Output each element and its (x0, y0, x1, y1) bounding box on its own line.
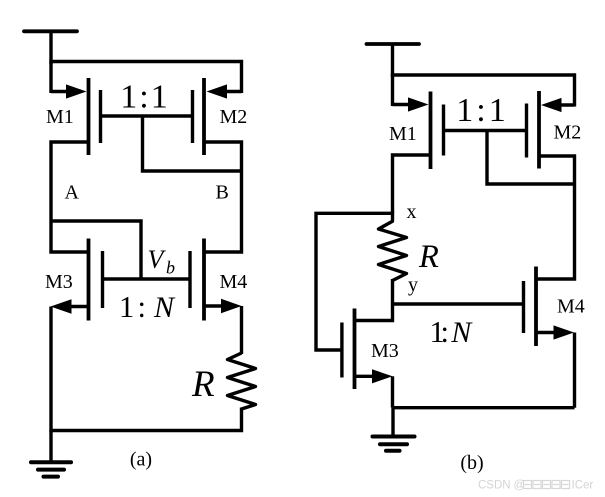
wire M4 source (a) (204, 304, 224, 307)
wire node y to M3 drain (b) (355, 304, 393, 321)
wire M4 source down to ground rail (b) (573, 333, 576, 408)
wire node A to lower gates (a) (51, 221, 141, 279)
wire M3 source (a) (68, 305, 89, 308)
svg-text:M1: M1 (389, 123, 417, 145)
wire gate M1-M2 (a) (101, 114, 193, 117)
resistor R (a) (228, 353, 256, 409)
svg-text:M1: M1 (46, 106, 74, 128)
wire VDD top rail (b) (393, 75, 575, 107)
wire node y to M4 gate (b) (393, 302, 524, 305)
wire VDD top rail (a) (51, 62, 242, 94)
svg-text:M4: M4 (557, 296, 585, 318)
wire M1 source (b) (393, 103, 413, 106)
svg-text::: : (441, 315, 449, 349)
svg-text:CSDN: CSDN (478, 480, 511, 492)
wire M3 source down to ground rail (a) (49, 307, 52, 433)
svg-text:R: R (418, 239, 439, 275)
svg-text:1:1: 1:1 (120, 79, 169, 116)
wire M3 source down to ground (b) (391, 376, 394, 407)
label Vb (a) (148, 245, 176, 278)
watermark CSDN (478, 480, 593, 492)
transistor M4 (b) (524, 267, 537, 347)
wire M2 source (a) (223, 90, 242, 93)
transistor M1 (b) (431, 92, 444, 170)
svg-text:x: x (407, 201, 417, 223)
arrow M4 source (a) (221, 299, 242, 314)
svg-text:y: y (408, 274, 418, 296)
svg-text:(a): (a) (130, 449, 152, 471)
label ratio 1:N (b) (430, 315, 474, 349)
wire M4 source to resistor (a) (240, 306, 243, 354)
svg-text:M3: M3 (371, 340, 399, 362)
VDD supply symbol (a) (24, 31, 77, 64)
svg-text:R: R (191, 364, 215, 405)
svg-text::: : (138, 290, 146, 324)
svg-text:1:1: 1:1 (456, 92, 508, 129)
wire gate M3-M4 (a) (103, 277, 191, 280)
svg-text:N: N (153, 291, 176, 324)
svg-text:(b): (b) (460, 452, 483, 474)
transistor M3 (a) (89, 239, 103, 321)
transistor M4 (a) (190, 239, 204, 321)
arrow M1 source (a) (66, 84, 87, 98)
wire node A: M1 drain to M3 drain (a) (51, 142, 89, 252)
ground (b) (373, 408, 415, 451)
wire ground rail (b) (393, 406, 575, 409)
wire M3 source (b) (355, 375, 375, 378)
VDD supply symbol (b) (367, 44, 420, 77)
wire M2 drain down to M4 drain (b) (536, 156, 575, 279)
svg-text:M2: M2 (220, 106, 248, 128)
svg-text:B: B (216, 182, 229, 204)
wire M2 source (b) (557, 103, 575, 106)
wire M2 diode connection (a) (143, 116, 242, 171)
svg-text:1: 1 (119, 290, 134, 324)
arrow M1 source (b) (408, 97, 429, 111)
ground (a) (31, 431, 71, 477)
arrow M2 source (b) (541, 98, 562, 112)
svg-text:b: b (166, 258, 175, 278)
svg-text:A: A (65, 182, 80, 204)
arrow M3 source (b) (372, 369, 393, 383)
svg-text:ICer: ICer (572, 480, 594, 492)
arrow M2 source (a) (207, 84, 228, 98)
svg-text:M3: M3 (45, 271, 73, 293)
transistor M2 (b) (527, 91, 540, 169)
wire M4 source (b) (536, 331, 556, 334)
transistor M1 (a) (89, 78, 101, 155)
wire node B: M2 drain to M4 drain (a) (204, 142, 242, 252)
wire gate M1-M2 (b) (444, 129, 527, 132)
resistor R (b) (379, 212, 407, 281)
svg-text:M4: M4 (220, 271, 248, 293)
arrow M3 source (a) (51, 299, 72, 314)
wire M1 source (a) (51, 90, 70, 93)
wire M2 diode connection (b) (487, 131, 575, 185)
wire resistor bottom to ground rail (a) (51, 408, 242, 431)
transistor M2 (a) (193, 78, 205, 155)
wire node x to M3 gate (b) (316, 213, 393, 350)
arrow M4 source (b) (554, 325, 575, 339)
wire resistor to node y (b) (391, 279, 394, 304)
transistor M3 (b) (342, 309, 355, 390)
svg-text:M2: M2 (554, 122, 582, 144)
svg-text:N: N (450, 316, 473, 349)
label ratio 1:N (a) (119, 290, 176, 324)
wire M1 drain to node x (b) (393, 155, 431, 213)
